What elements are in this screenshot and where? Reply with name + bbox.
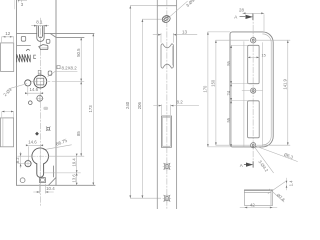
svg-text:1.4: 1.4 (289, 180, 294, 186)
dimension 10.4 (34, 184, 54, 193)
side slab rectangle lower (0, 118, 13, 147)
grey stamp pill (43, 107, 48, 110)
dimension 28 (243, 13, 264, 31)
extension cylinder center right (49, 155, 84, 157)
lock case outline (17, 0, 96, 185)
dimension 14.6 lower (28, 147, 30, 161)
dimension 42 (240, 207, 277, 209)
dimension 15 (248, 56, 259, 58)
lever arc above spring (26, 49, 29, 50)
auxiliary pin square (right of latch pin) (46, 39, 50, 43)
middle screw hole (251, 88, 256, 93)
leader 66.75 (43, 145, 72, 150)
bottom screw hole (251, 143, 256, 148)
svg-text:55: 55 (226, 61, 231, 66)
side slab rectangle (1, 43, 14, 72)
dimension for lower slab (2, 111, 14, 113)
svg-text:85: 85 (76, 131, 81, 136)
svg-text:14.6: 14.6 (30, 87, 39, 92)
svg-text:42: 42 (250, 202, 255, 207)
small hole S1 (29, 101, 33, 105)
faceplate edges (157, 0, 176, 209)
follower hub circle (34, 75, 47, 88)
leader 3-Ø4.2 (254, 147, 273, 173)
latch opening (spool) (161, 44, 173, 68)
top screw hole (251, 38, 256, 43)
hole bottom-left (20, 178, 25, 183)
follower horizontal centerline (31, 81, 50, 83)
strike plate outline (230, 32, 273, 147)
euro cylinder hole (37, 164, 44, 177)
square hole bottom (40, 178, 46, 183)
svg-text:170: 170 (203, 85, 208, 93)
svg-text:141.9: 141.9 (283, 79, 288, 90)
latch pin (top plunger) (37, 26, 44, 42)
dimension 8.2 left (18, 152, 33, 168)
filled diamond (35, 132, 39, 136)
svg-text:8.2: 8.2 (15, 157, 20, 164)
dimension 240 (129, 6, 131, 199)
svg-text:240: 240 (125, 101, 130, 109)
latch bolt wedge (39, 45, 48, 50)
follower square hole (37, 78, 44, 85)
dimension 55/24/55 (230, 45, 232, 146)
small bracket right of spring (34, 55, 36, 58)
svg-text:173: 173 (88, 105, 93, 113)
extension line stem bottom (44, 172, 81, 174)
svg-text:8.2X8.2: 8.2X8.2 (62, 65, 78, 70)
dimension 8.1 (latch pin width) (32, 25, 49, 27)
dimension 85 (80, 81, 82, 156)
cross hole (47, 127, 50, 130)
recess bend line right (262, 43, 264, 147)
svg-text:24: 24 (226, 90, 231, 95)
svg-text:13.6: 13.6 (72, 174, 77, 183)
dimension 150 (screw centers) (216, 40, 250, 145)
screw hole 2 (163, 194, 171, 202)
svg-text:12: 12 (5, 31, 11, 36)
dimension 50.5 (80, 37, 82, 81)
svg-text:13: 13 (182, 29, 188, 34)
faceplate edge line (left view) (55, 0, 57, 185)
follower nub above hub (38, 70, 41, 73)
section plate top (244, 189, 272, 191)
leader Ø7.8 (270, 189, 285, 202)
hole 2-Ø9 upper (25, 80, 31, 86)
section sides (244, 190, 272, 205)
spring (17, 54, 31, 62)
leader 3-Ø5.5 (170, 1, 187, 16)
screw hole 1 (163, 162, 171, 170)
dimension 3 (top, clipped) (14, 0, 16, 9)
svg-text:8.2: 8.2 (177, 99, 184, 104)
centerline strike plate (252, 15, 254, 167)
vertical centerline of lock (39, 18, 41, 206)
dimension 206 (141, 19, 143, 198)
svg-text:A: A (240, 163, 243, 168)
internal horizontal line above spring (17, 45, 31, 47)
faceplate top edge (157, 5, 176, 7)
dimension 14.6 upper (27, 87, 29, 96)
dimension 8.2 (deadbolt slot) (154, 105, 199, 115)
deadbolt slot (248, 101, 260, 138)
bend inner line (263, 34, 272, 145)
svg-text:50.5: 50.5 (76, 48, 81, 57)
svg-text:14.6: 14.6 (28, 139, 37, 144)
leader 1.4 (thickness) (268, 182, 286, 194)
svg-text:55: 55 (226, 117, 231, 122)
faceplate centerline (166, 0, 168, 209)
svg-text:19.4: 19.4 (72, 158, 77, 167)
countersunk hole top (161, 14, 171, 24)
svg-text:8.1: 8.1 (36, 19, 43, 24)
extension follower center right (52, 80, 84, 82)
dimension 173 (92, 33, 94, 185)
latch slot (248, 45, 259, 83)
recess bend line left (243, 42, 245, 148)
leader Ø6.3 (256, 146, 298, 162)
leader 2-Ø9 (11, 84, 27, 89)
hole 2-Ø9 lower (25, 161, 31, 167)
svg-text:15: 15 (262, 53, 266, 58)
svg-text:A: A (234, 14, 237, 19)
deadbolt opening (161, 116, 171, 147)
dimension 141.9 (257, 40, 291, 145)
svg-text:10.4: 10.4 (46, 186, 55, 191)
dimension 170 (plate height) (208, 32, 230, 147)
label square 8.2X8.2 (62, 65, 78, 70)
dimension 13 (153, 33, 197, 42)
svg-text:28: 28 (239, 8, 244, 13)
rivet square top-left (21, 36, 25, 41)
dimension 12 + side slab (2, 37, 14, 42)
hole below follower (37, 95, 43, 101)
dimension 19.4 / 13.6 (76, 156, 78, 185)
svg-text:150: 150 (211, 79, 216, 87)
svg-text:206: 206 (137, 102, 142, 110)
